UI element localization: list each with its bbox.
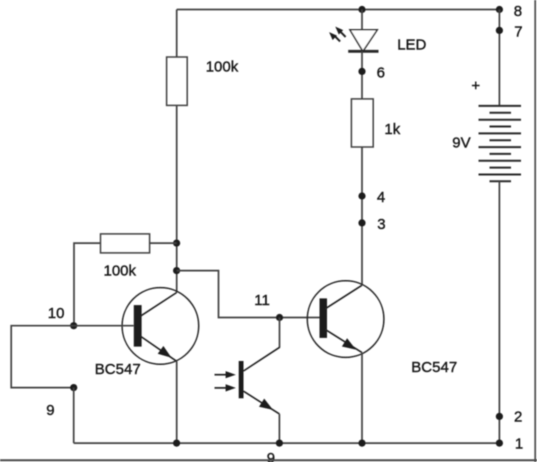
wire from V+ rail down to R1 bbox=[176, 10, 178, 58]
wire node 11 down to phototransistor collector bbox=[279, 318, 281, 348]
junction dot Q2 emitter on ground rail bbox=[358, 440, 365, 447]
node 6 junction dot bbox=[358, 68, 365, 75]
wire Q1 emitter down to ground rail bbox=[176, 361, 178, 443]
transistor Q2 emitter arrowhead bbox=[342, 338, 356, 349]
transistor Q1 emitter line bbox=[140, 336, 177, 361]
svg-text:+: + bbox=[471, 78, 480, 95]
svg-text:10: 10 bbox=[48, 305, 65, 322]
svg-text:100k: 100k bbox=[104, 263, 137, 280]
node 9 junction dot bbox=[70, 384, 77, 391]
transistor Q2 base bar bbox=[320, 298, 328, 338]
node 2 junction dot bbox=[496, 413, 503, 420]
phototransistor Q3 collector line bbox=[244, 347, 280, 371]
transistor Q2 emitter line bbox=[325, 329, 362, 352]
wire LED cathode to node 6 and R3 bbox=[361, 51, 363, 99]
frame right border bbox=[534, 0, 536, 462]
junction dot node between R1 and R2 bbox=[173, 240, 180, 247]
wire collector node to node 11 bbox=[177, 271, 320, 318]
phototransistor Q3 base bar bbox=[239, 361, 244, 398]
phototransistor Q3 emitter line bbox=[244, 391, 280, 414]
svg-text:9: 9 bbox=[46, 402, 54, 419]
resistor R2 100k (horizontal) bbox=[101, 234, 150, 253]
junction dot Q1 emitter on ground rail bbox=[173, 440, 180, 447]
svg-text:1k: 1k bbox=[384, 121, 400, 138]
svg-text:LED: LED bbox=[397, 37, 426, 54]
svg-text:2: 2 bbox=[514, 409, 522, 426]
wire node 8 down to battery positive bbox=[498, 10, 500, 106]
resistor R3 1k (vertical) bbox=[351, 99, 373, 147]
frame bottom border bbox=[0, 459, 537, 461]
LED light arrow lower-left bbox=[335, 36, 340, 41]
LED D1 cathode bar bbox=[348, 50, 378, 53]
junction dot Q1 collector node bbox=[173, 267, 180, 274]
wire node 10 loop to node 9 bbox=[11, 326, 73, 388]
LED D1 triangle bbox=[350, 30, 377, 52]
svg-text:8: 8 bbox=[514, 3, 522, 20]
wire ground bottom rail bbox=[74, 442, 500, 444]
node 4 junction dot bbox=[358, 192, 365, 199]
junction dot LED anode on V+ rail bbox=[358, 6, 365, 13]
wire V+ top rail bbox=[177, 9, 500, 11]
node 8 junction dot bbox=[496, 6, 503, 13]
node 1 junction dot bbox=[496, 440, 503, 447]
svg-text:6: 6 bbox=[377, 65, 385, 82]
transistor Q2 BC547 circle bbox=[307, 281, 384, 358]
battery B1 9V plates bbox=[479, 106, 522, 181]
svg-text:1: 1 bbox=[515, 435, 523, 452]
resistor R1 100k (vertical) bbox=[167, 57, 188, 105]
junction dot Q3 emitter on ground rail node 9 bbox=[276, 440, 283, 447]
node 10 junction dot bbox=[70, 322, 77, 329]
wire battery negative down to node 1 bbox=[498, 181, 500, 443]
svg-text:4: 4 bbox=[377, 189, 385, 206]
phototransistor Q3 emitter arrowhead bbox=[259, 399, 273, 410]
transistor Q1 base bar bbox=[134, 305, 142, 347]
wire R2 left lead down to node 10 bbox=[74, 243, 101, 326]
svg-text:BC547: BC547 bbox=[411, 359, 457, 376]
transistor Q2 collector line bbox=[325, 285, 362, 309]
svg-text:100k: 100k bbox=[206, 59, 239, 76]
wire R3 bottom through nodes 4 and 3 to Q2 collector bbox=[361, 147, 363, 285]
svg-text:BC547: BC547 bbox=[95, 361, 141, 378]
node 11 junction dot bbox=[276, 314, 283, 321]
svg-text:9V: 9V bbox=[452, 135, 470, 152]
wire Q1 base from node 10 bbox=[74, 325, 134, 327]
phototransistor Q3 light arrow lower bbox=[215, 387, 228, 389]
node 7 junction dot bbox=[496, 27, 503, 34]
node 3 junction dot bbox=[358, 219, 365, 226]
transistor Q1 BC547 circle bbox=[122, 288, 199, 365]
svg-text:7: 7 bbox=[514, 24, 522, 41]
wire rail down to LED bbox=[361, 10, 363, 30]
wire node 9 down to ground rail bbox=[73, 388, 75, 444]
wire R1 bottom down to Q1 collector junction bbox=[176, 105, 178, 292]
svg-text:11: 11 bbox=[254, 292, 270, 309]
transistor Q1 collector line bbox=[140, 293, 177, 317]
wire Q2 emitter down to ground rail bbox=[361, 353, 363, 444]
wire Q3 emitter down to ground rail bbox=[278, 414, 280, 443]
LED light arrow upper-right bbox=[341, 32, 346, 37]
phototransistor Q3 light arrow upper bbox=[215, 374, 228, 376]
transistor Q1 emitter arrowhead bbox=[158, 346, 172, 358]
wire R2 right lead to collector node bbox=[150, 242, 177, 244]
svg-text:3: 3 bbox=[377, 216, 385, 233]
